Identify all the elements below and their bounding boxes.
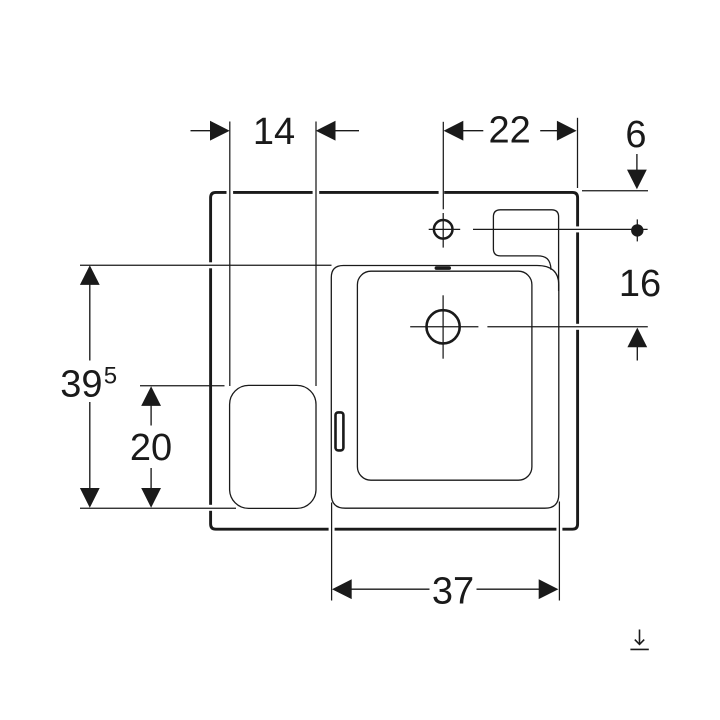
soap dish [230, 385, 316, 508]
dim 16 dot crosshair vertical [636, 219, 638, 241]
drain hole [427, 310, 460, 343]
svg-text:6: 6 [625, 114, 646, 156]
dim 14 right extension line [315, 122, 317, 387]
dim 20 line upper segment [150, 406, 152, 426]
drain crosshair horizontal [410, 326, 478, 328]
svg-text:22: 22 [489, 110, 531, 152]
download icon [630, 630, 648, 650]
dim 20 top extension line [140, 385, 225, 387]
svg-text:16: 16 [619, 263, 661, 305]
overflow slot (top of inner basin) [435, 266, 451, 270]
dim 22 left arrow [444, 121, 464, 141]
tap hole crosshair vertical [442, 213, 444, 248]
dim 16 dot [631, 224, 643, 236]
dim 37 right arrow [539, 579, 559, 599]
dim 39.5 line upper segment [89, 285, 91, 361]
dim 14 left tail [191, 130, 211, 132]
dim 6 tail [636, 154, 638, 171]
dim 22 left extension line [442, 122, 444, 210]
tap hole crosshair horizontal [429, 228, 461, 230]
side slot on basin left rim [336, 412, 344, 450]
dim 22 right extension line [577, 118, 579, 188]
dim 14 right tail [335, 130, 359, 132]
dim 37 line left segment [352, 588, 430, 590]
dim 39.5 top arrow [80, 265, 100, 285]
basin inner bottom [357, 271, 532, 480]
dim 39.5 bottom extension line [80, 507, 236, 509]
drain leader line right [487, 326, 647, 328]
dim 37 line right segment [477, 588, 540, 590]
dim 14 left arrow [210, 121, 230, 141]
countertop outline [211, 192, 578, 529]
tap hole leader line to dot [473, 228, 648, 230]
dim 14 right arrow [316, 121, 336, 141]
dim 16 arrow [627, 328, 647, 348]
dim 39.5 bottom arrow [80, 488, 100, 508]
basin outer rim [331, 266, 559, 509]
dim 37 left extension line [331, 503, 333, 601]
dim 6 reference line [582, 190, 648, 192]
tap hole [434, 220, 453, 239]
dim 20 top arrow [141, 386, 161, 406]
dim 22 right arrow [557, 121, 577, 141]
dim 20 line lower segment [150, 468, 152, 488]
dim 22 line right segment [540, 130, 557, 132]
dim 6 arrow [627, 170, 647, 190]
gaps in countertop outline at extension-line crossings [208, 190, 580, 532]
drain crosshair vertical [442, 295, 444, 358]
dim 37 left arrow [332, 579, 352, 599]
dim 37 right extension line [558, 502, 560, 601]
dim 39.5 line lower segment [89, 402, 91, 488]
dim 14 left extension line [229, 122, 231, 387]
dim 39.5 top extension line [80, 264, 332, 266]
dim 22 line left segment [463, 130, 483, 132]
dim 20 bottom arrow [141, 488, 161, 508]
svg-text:37: 37 [432, 571, 474, 613]
svg-text:20: 20 [130, 427, 172, 469]
tap deck shelf [493, 210, 558, 291]
dim 16 tail [636, 347, 638, 361]
svg-text:14: 14 [253, 111, 295, 153]
